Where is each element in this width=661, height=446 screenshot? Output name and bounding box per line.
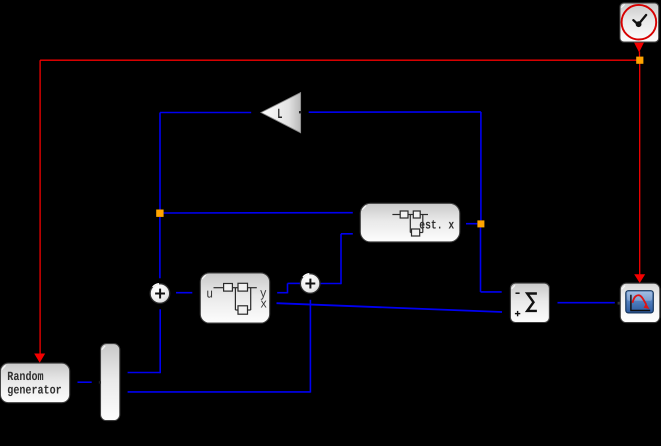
big sum block (Sigma): [510, 283, 549, 322]
random generator block: [0, 363, 69, 403]
clock block: [620, 3, 659, 42]
wire: demux output 2 to sum2 bottom input: [128, 300, 311, 393]
svg-text:u: u: [206, 286, 213, 301]
svg-text:Random: Random: [7, 370, 44, 384]
junction J1 red link split: [636, 57, 643, 64]
scope block: [618, 283, 660, 322]
wire: state-space x output sloped to big sum plus input: [277, 303, 503, 312]
wire: gain output to junction J2: [160, 113, 251, 211]
svg-text:L: L: [277, 107, 282, 123]
junction J2: [156, 210, 163, 217]
junction J3: [477, 220, 484, 227]
svg-text:x: x: [260, 297, 267, 312]
wire: sum2 output up to estimator input 2: [320, 234, 353, 284]
svg-text:est. x: est. x: [419, 218, 454, 232]
wire: demux output 1 to sum1 bottom input: [128, 309, 161, 373]
sum block S1 (round +): [150, 284, 170, 304]
demux block: [99, 344, 120, 421]
wire: junction J3 down to big sum minus input: [481, 227, 502, 292]
wire: sum1 output to state-space u input: [176, 292, 192, 294]
gain block L (triangle): [261, 93, 301, 133]
wire: state-space y output to sum2 left input: [277, 283, 300, 293]
wire: estimator output to junction J3: [466, 223, 477, 225]
wire: random generator output to demux input: [78, 381, 92, 383]
wire: red event link horizontal to left: [40, 59, 640, 61]
wire: red event link down to random generator with arrow: [34, 60, 45, 363]
svg-text:generator: generator: [7, 384, 61, 398]
wire: junction J2 to estimator input 1: [164, 212, 353, 214]
wire: red event link down to scope with arrow: [634, 60, 645, 283]
state-space system block U1: [200, 273, 269, 323]
wire: big sum output to scope input: [558, 302, 615, 304]
wire: junction J3 up and left to gain input: [309, 112, 481, 220]
wire: junction J2 down to sum1 top input: [159, 217, 161, 278]
wire: red event link clock output arrow: [634, 42, 644, 58]
estimator block est. x: [360, 203, 460, 242]
sum block S2 (round +): [300, 274, 320, 294]
